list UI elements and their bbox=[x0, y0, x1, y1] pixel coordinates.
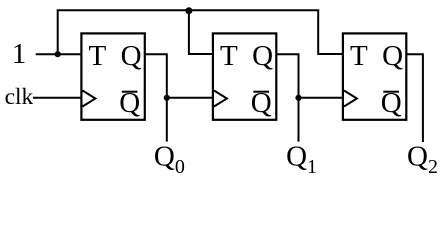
U3 clock edge triangle bbox=[344, 91, 357, 107]
junction: node Q0 tap to U2 clock bbox=[164, 95, 170, 101]
U3 body bbox=[343, 33, 406, 119]
wire: rail drop to U2 T input bbox=[189, 10, 213, 54]
svg-text:Q: Q bbox=[252, 40, 273, 72]
svg-text:Q: Q bbox=[382, 40, 403, 72]
junction: rail tap to U2 T bbox=[185, 7, 192, 14]
wire: U3 Q output right then down to node Q2 bbox=[406, 54, 423, 142]
wire: input 1 to U1 T input bbox=[36, 53, 82, 55]
wire: feedback rail from node 1 up and across the top to U3 T input bbox=[58, 10, 343, 54]
U2 clock edge triangle bbox=[214, 91, 227, 107]
wire: clk input to U1 clock pin bbox=[33, 97, 81, 99]
U1 body bbox=[81, 33, 144, 119]
svg-text:Q: Q bbox=[121, 40, 142, 72]
U2 body bbox=[213, 33, 276, 119]
junction: node 1 tap to rail bbox=[55, 51, 61, 57]
svg-text:Q1: Q1 bbox=[286, 141, 317, 178]
wire: U2 Q output right then down to node Q1 bbox=[276, 54, 298, 141]
wire: node Q0 junction to U2 clock pin bbox=[167, 97, 213, 99]
U1 clock edge triangle bbox=[83, 91, 96, 107]
svg-text:clk: clk bbox=[5, 84, 34, 110]
junction: node Q1 tap to U3 clock bbox=[295, 95, 301, 101]
svg-text:Q2: Q2 bbox=[407, 141, 438, 178]
svg-text:1: 1 bbox=[12, 38, 27, 70]
T flip-flop U1 bbox=[81, 33, 144, 119]
wire: node Q1 junction to U3 clock pin bbox=[299, 97, 343, 99]
svg-text:T: T bbox=[88, 40, 106, 72]
svg-text:T: T bbox=[350, 40, 368, 72]
svg-text:Q0: Q0 bbox=[154, 141, 185, 178]
T flip-flop U2 bbox=[213, 33, 276, 119]
T flip-flop U3 bbox=[343, 33, 406, 119]
wire: U1 Q output right then down to node Q0 bbox=[145, 54, 167, 141]
svg-text:T: T bbox=[220, 40, 238, 72]
